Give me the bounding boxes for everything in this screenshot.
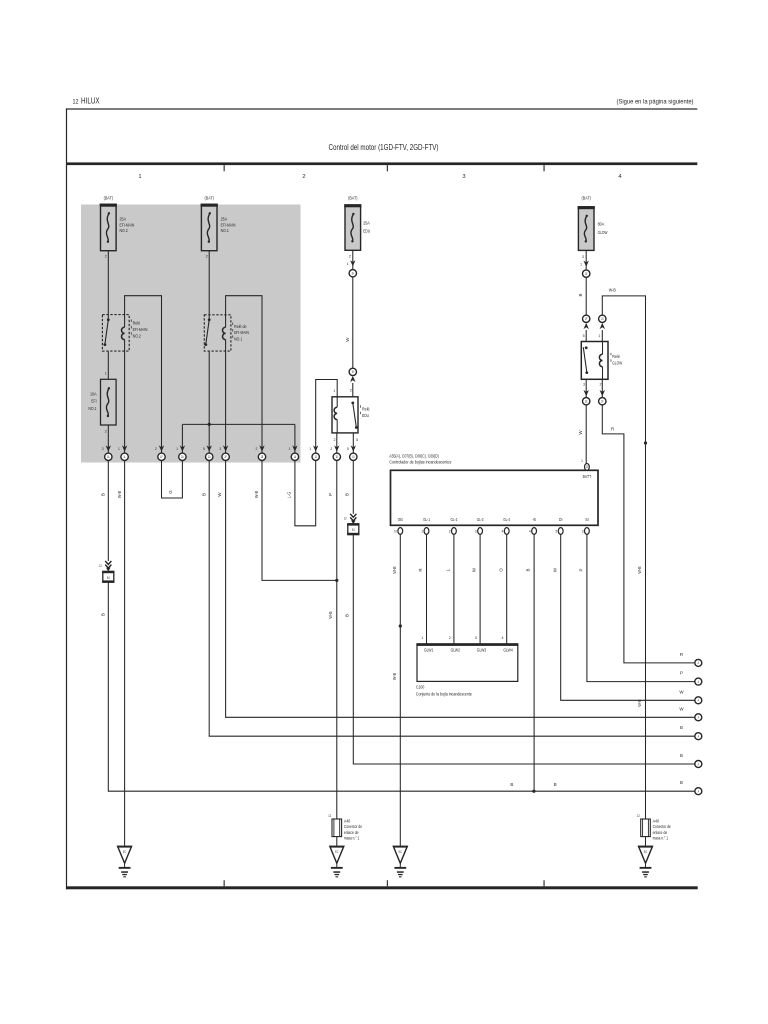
wire label B right edge <box>680 780 683 785</box>
wire label W (BATT) <box>578 430 583 435</box>
value label 10A EFI NO.1 <box>88 391 97 410</box>
junction dot +B joins B bus <box>532 790 535 793</box>
svg-text:(BAT): (BAT) <box>205 195 215 200</box>
svg-text:enlace de: enlace de <box>344 830 359 835</box>
wire A40 right to ground <box>645 837 647 847</box>
svg-text:E4: E4 <box>352 528 355 532</box>
labels GLW1-4 <box>424 648 513 653</box>
svg-text:A40: A40 <box>653 819 660 824</box>
svg-text:B: B <box>345 614 350 617</box>
label relay R4 <box>611 353 623 366</box>
label (BAT) fuse F4 <box>348 195 358 200</box>
svg-text:NO.1: NO.1 <box>88 406 97 411</box>
wire L GL to glow plug 2 <box>446 534 454 644</box>
junction dot on GND wire <box>399 624 402 627</box>
wire label W (col2) <box>217 492 222 497</box>
svg-text:10: 10 <box>394 530 397 534</box>
pin GL-2 of A55 <box>449 517 458 534</box>
pin BATT of A55 <box>581 459 591 479</box>
arrow into connector 2A <box>176 445 185 451</box>
wire B fuse GLOW down <box>585 277 587 315</box>
svg-text:A55(A), C07(B), C08(C), C09(D): A55(A), C07(B), C08(C), C09(D) <box>389 454 439 459</box>
pin 2 of fuse F3 <box>105 430 107 434</box>
wire W-B branch to right <box>602 296 645 819</box>
svg-text:Control del motor (1GD-FTV, 2G: Control del motor (1GD-FTV, 2GD-FTV) <box>329 142 439 152</box>
svg-text:GL-4: GL-4 <box>503 517 510 522</box>
svg-text:80A: 80A <box>598 222 605 227</box>
svg-text:W-B: W-B <box>637 566 642 573</box>
svg-text:4: 4 <box>502 530 504 534</box>
wire fuse F4 to connector <box>347 250 356 269</box>
wire B bottom run to right edge <box>534 790 695 792</box>
connector at right edge W4 <box>695 714 702 721</box>
junction dot column2 bus <box>208 423 211 426</box>
svg-text:2: 2 <box>330 447 332 451</box>
wire bus right drop <box>294 424 296 453</box>
junction dot W-B merge <box>335 579 338 582</box>
wire W GL to glow plug 3 <box>472 534 480 644</box>
svg-text:Conector de: Conector de <box>653 824 672 829</box>
svg-text:A40: A40 <box>344 819 351 824</box>
value label 80A GLOW <box>598 222 608 235</box>
wire label W-B GND lower <box>392 673 397 680</box>
label C100 <box>416 685 472 697</box>
svg-text:3: 3 <box>475 530 477 534</box>
svg-text:(BAT): (BAT) <box>348 195 358 200</box>
section tick top 2|3 <box>387 165 388 171</box>
relay block panel (gray) <box>81 205 301 463</box>
svg-text:2A: 2A <box>107 455 110 459</box>
svg-text:12: 12 <box>73 98 79 105</box>
svg-text:R: R <box>680 652 683 657</box>
connector at right edge B5 <box>695 733 702 740</box>
label A40 left <box>344 819 363 841</box>
relay R3 EDU (solid box) <box>332 397 358 433</box>
wire relay R3 coil loop <box>316 380 338 454</box>
svg-text:GLOW: GLOW <box>598 230 608 235</box>
svg-text:O: O <box>498 568 503 572</box>
wire relay R4 pin3 down <box>584 379 589 397</box>
svg-text:1D: 1D <box>586 465 589 469</box>
label (BAT) fuse F2 <box>205 195 215 200</box>
wire A40 left to ground <box>336 837 338 847</box>
arrow into connector 3E <box>347 445 356 451</box>
svg-text:GLW2: GLW2 <box>451 648 461 653</box>
frame bottom thick rule <box>66 886 698 889</box>
svg-text:HILUX: HILUX <box>81 96 100 105</box>
pin 3 of relay R4 <box>583 383 585 387</box>
connector node 4B <box>583 315 590 322</box>
wire P from SI pin <box>587 534 695 681</box>
connector node 4C <box>599 315 606 322</box>
arrow into connector 3C <box>309 445 318 451</box>
pin GND of A55 <box>394 517 403 534</box>
wire label W right edge 3 <box>679 689 684 694</box>
pin 2 of fuse F1 <box>105 255 107 259</box>
ECU A55 box <box>391 470 599 525</box>
label A40 right <box>653 819 672 841</box>
wire W from DI pin <box>561 534 695 700</box>
svg-text:10A: 10A <box>90 391 97 396</box>
label relay R3 <box>360 405 370 418</box>
svg-text:GND: GND <box>398 517 403 522</box>
connector node 2E <box>291 453 298 460</box>
svg-text:1: 1 <box>105 372 107 376</box>
svg-text:1H: 1H <box>352 272 355 276</box>
frame left border <box>66 108 67 889</box>
svg-text:NO.1: NO.1 <box>234 337 243 342</box>
wire label W (DI) <box>552 567 557 572</box>
section tick top 3|4 <box>544 165 545 171</box>
svg-text:Relé: Relé <box>612 354 620 359</box>
svg-text:W-B: W-B <box>254 491 259 498</box>
svg-text:3: 3 <box>462 174 465 180</box>
connector node 2D <box>258 453 265 460</box>
pin SI of A55 <box>582 517 590 534</box>
section tick bottom 3|4 <box>544 880 545 886</box>
wire label P right edge 2 <box>680 671 683 676</box>
fuse F2 25A EFI-MAIN NO.1 <box>201 204 218 251</box>
wire label B (EDU lower) <box>345 614 350 617</box>
svg-text:W-B: W-B <box>392 673 397 680</box>
svg-text:25A: 25A <box>221 217 228 222</box>
inline connector on wire B <box>99 561 114 583</box>
wire label L-G <box>286 492 291 498</box>
svg-text:W-B: W-B <box>637 699 642 706</box>
label relay R1 <box>131 320 148 339</box>
wire label W right edge 4 <box>679 706 684 711</box>
page header text 12 HILUX <box>73 96 101 105</box>
pin GL-1 of A55 <box>421 517 430 534</box>
svg-text:B: B <box>554 782 557 787</box>
wire bus center drop <box>208 424 210 453</box>
svg-text:B: B <box>526 568 531 571</box>
ground G3 <box>393 846 408 878</box>
svg-text:2: 2 <box>449 530 451 534</box>
arrow into connector 2B <box>203 445 212 451</box>
svg-text:SI: SI <box>585 517 588 522</box>
pin 1 of fuse F3 <box>105 372 107 376</box>
svg-text:(BAT): (BAT) <box>582 196 592 201</box>
wire label P (SI) <box>579 568 584 571</box>
wire label W-B (GLOW top) <box>609 288 616 293</box>
inline connector on EDU B wire <box>344 514 360 536</box>
svg-text:Relé: Relé <box>362 407 370 412</box>
wire P from connector 3D <box>336 461 338 581</box>
svg-text:R: R <box>611 426 614 431</box>
svg-text:25A: 25A <box>363 220 370 225</box>
svg-text:B: B <box>101 493 106 496</box>
wire label B (EDU sw) <box>345 493 350 496</box>
connector at right edge B6 <box>695 761 702 768</box>
svg-text:B: B <box>680 780 683 785</box>
svg-text:Relé: Relé <box>133 321 141 326</box>
svg-text:(Sigue en la página siguiente): (Sigue en la página siguiente) <box>617 99 694 106</box>
svg-text:12: 12 <box>344 517 347 521</box>
connector node 4A <box>583 270 590 277</box>
svg-text:1: 1 <box>333 389 335 393</box>
wire fuse F1 to relay R1 <box>107 251 109 320</box>
wire W relay R4 to BATT <box>585 405 587 464</box>
svg-text:(BAT): (BAT) <box>104 195 114 200</box>
svg-text:DI: DI <box>559 517 562 522</box>
svg-text:masa n.° 1: masa n.° 1 <box>344 835 360 840</box>
column number 3 <box>462 174 465 180</box>
wire label B lower <box>101 613 106 616</box>
svg-text:5: 5 <box>556 530 558 534</box>
connector at right edge P2 <box>695 678 702 685</box>
svg-text:1: 1 <box>598 334 600 338</box>
wire label B (GLOW) <box>578 293 583 296</box>
svg-text:EDU: EDU <box>363 229 370 234</box>
svg-text:1: 1 <box>347 262 349 266</box>
svg-text:P: P <box>680 671 683 676</box>
svg-text:2A: 2A <box>181 455 184 459</box>
wire O GL to glow plug 4 <box>498 534 506 644</box>
svg-text:2: 2 <box>349 255 351 259</box>
arrow into connector 2D <box>256 445 265 451</box>
arrow up into connector 4B <box>584 323 589 342</box>
arrow into connector 2C <box>219 445 228 451</box>
wire fuse F3 to connector row <box>107 425 109 453</box>
svg-text:W-B: W-B <box>609 288 616 293</box>
svg-text:4: 4 <box>502 636 504 640</box>
wire B EDU to right edge <box>353 534 694 764</box>
pin 1 of relay R3 <box>333 389 335 393</box>
pin 2 of fuse F5 <box>582 255 584 259</box>
svg-text:E4: E4 <box>107 576 110 580</box>
relay R1 EFI-MAIN NO.2 (dashed) <box>102 315 129 352</box>
wire R relay R4 to right edge <box>602 405 694 663</box>
arrow into connector 1A <box>102 445 111 451</box>
connector node 3D <box>333 453 340 460</box>
wire label B bottom right <box>554 782 557 787</box>
svg-text:Conector de: Conector de <box>344 824 363 829</box>
svg-text:1: 1 <box>138 174 141 180</box>
svg-text:NO.1: NO.1 <box>221 228 230 233</box>
svg-text:EC: EC <box>399 850 403 854</box>
svg-text:12: 12 <box>99 564 102 568</box>
svg-text:NO.2: NO.2 <box>133 334 142 339</box>
wire W-B from connector 1B to ground <box>124 461 126 847</box>
relay R4 GLOW (solid box) <box>581 342 608 380</box>
svg-text:B: B <box>680 725 683 730</box>
svg-text:W-B: W-B <box>392 566 397 573</box>
wire label B (+B) <box>526 568 531 571</box>
wire junction bus horizontal <box>182 423 295 425</box>
arrow into connector 1B <box>118 445 127 451</box>
svg-text:2: 2 <box>105 430 107 434</box>
connector node 1B <box>121 453 128 460</box>
svg-text:2: 2 <box>350 388 352 392</box>
wire relay R4 pin2 down <box>600 379 605 397</box>
svg-text:2: 2 <box>334 438 336 442</box>
svg-text:+B: +B <box>532 517 535 522</box>
svg-text:2: 2 <box>206 255 208 259</box>
wire B from connector 2B <box>209 461 694 737</box>
wire L-G jumper 2E to 3C <box>295 461 316 526</box>
pin 5 of relay R4 <box>583 334 585 338</box>
ECU A55 glow plug controller heading <box>389 454 452 465</box>
svg-text:GLW1: GLW1 <box>424 648 434 653</box>
ground G2 <box>330 846 345 878</box>
svg-text:1G: 1G <box>601 317 604 321</box>
svg-text:2A: 2A <box>208 455 211 459</box>
connector node 3E <box>350 453 357 460</box>
value label 25A EFI-MAIN NO.2 <box>120 217 135 233</box>
wire R GL to glow plug 1 <box>418 534 426 644</box>
wire B from connector 3E <box>352 461 354 514</box>
connector node 1A <box>105 453 112 460</box>
title Control del motor (1GD-FTV, 2GD-FTV) <box>329 142 439 152</box>
wire label W-B (col2) <box>254 491 259 498</box>
svg-text:NO.2: NO.2 <box>120 228 129 233</box>
svg-text:GLW3: GLW3 <box>477 648 487 653</box>
svg-text:Relé de: Relé de <box>234 324 247 329</box>
svg-text:5: 5 <box>356 438 358 442</box>
wire label W (EDU) <box>345 337 350 342</box>
svg-text:3: 3 <box>219 447 221 451</box>
wire B from connector 1A <box>107 461 109 562</box>
connector node 4E <box>599 398 606 405</box>
svg-text:W-B: W-B <box>117 491 122 498</box>
svg-text:1F: 1F <box>585 317 588 321</box>
frame top rule <box>66 108 697 109</box>
wire label W-B <box>117 491 122 498</box>
arrow into connector 1C <box>155 445 164 451</box>
svg-text:Controlador de bujías incandes: Controlador de bujías incandescentes <box>389 460 452 465</box>
wire relay R1 coil loop <box>125 296 162 453</box>
wire label B right edge 6 <box>680 753 683 758</box>
glow plug assembly C100 box <box>416 643 518 681</box>
svg-text:2: 2 <box>449 636 451 640</box>
wire bus left drop <box>181 424 183 453</box>
connector at right edge B7 <box>695 788 702 795</box>
svg-text:EC: EC <box>335 850 339 854</box>
connector node 2C <box>222 453 229 460</box>
pin 2 of fuse F4 <box>349 255 351 259</box>
pin +B of A55 <box>529 517 537 534</box>
ground link connector A40 right <box>637 814 650 836</box>
svg-text:1F: 1F <box>601 400 604 404</box>
ground G4 <box>638 846 653 878</box>
svg-text:1: 1 <box>288 447 290 451</box>
connector node 1C <box>158 453 165 460</box>
svg-text:masa n.° 1: masa n.° 1 <box>653 835 669 840</box>
svg-text:3: 3 <box>475 636 477 640</box>
wire fuse F2 to relay R2 <box>208 251 210 320</box>
svg-text:2: 2 <box>105 255 107 259</box>
value label 25A EDU <box>363 220 370 233</box>
pin GL-4 of A55 <box>502 517 511 534</box>
wire relay R3 pin2 down <box>336 433 338 453</box>
label relay R2 <box>232 323 249 342</box>
svg-text:1H: 1H <box>352 370 355 374</box>
svg-text:EFI-MAIN: EFI-MAIN <box>234 330 249 335</box>
relay R2 EFI-MAIN NO.1 (dashed) <box>204 315 231 351</box>
svg-text:1: 1 <box>176 447 178 451</box>
svg-text:2: 2 <box>582 255 584 259</box>
svg-text:enlace de: enlace de <box>653 830 668 835</box>
arrow into connector 3D <box>330 445 339 451</box>
svg-text:12: 12 <box>328 814 331 818</box>
wire relay R3 pin5 down <box>352 433 354 453</box>
svg-text:EDU: EDU <box>362 413 369 418</box>
svg-text:GL-2: GL-2 <box>451 517 458 522</box>
svg-text:3: 3 <box>102 447 104 451</box>
pin 2 of relay R3 bottom <box>334 438 336 442</box>
wire relay R2 coil to connector <box>225 340 227 454</box>
svg-text:GLW4: GLW4 <box>503 648 513 653</box>
coil of relay R1 <box>122 327 125 339</box>
wire relay R1 coil to connector <box>124 340 126 454</box>
wire W from connector 2C <box>226 461 695 718</box>
pin GL-3 of A55 <box>475 517 484 534</box>
pin DI of A55 <box>556 517 564 534</box>
wire label B <box>101 493 106 496</box>
connector node 2A <box>179 453 186 460</box>
svg-text:1: 1 <box>581 459 583 463</box>
svg-text:1F: 1F <box>224 455 227 459</box>
svg-text:B: B <box>101 613 106 616</box>
connector node 2B <box>206 453 213 460</box>
arrow up into connector 3B <box>350 376 355 397</box>
coil of relay R4 <box>599 342 602 380</box>
svg-text:B: B <box>578 293 583 296</box>
connector node 3C <box>312 453 319 460</box>
fuse F4 25A EDU <box>344 204 361 250</box>
svg-text:R: R <box>418 568 423 571</box>
wire label R right edge 1 <box>680 652 683 657</box>
svg-text:C100: C100 <box>416 685 425 690</box>
svg-text:1: 1 <box>309 447 311 451</box>
svg-text:B: B <box>510 782 513 787</box>
svg-text:1A: 1A <box>294 455 297 459</box>
svg-text:1: 1 <box>421 636 423 640</box>
pin 2 of relay R3 <box>350 388 352 392</box>
svg-text:GL-3: GL-3 <box>477 517 484 522</box>
wire label W-B (glow mid) <box>637 566 642 573</box>
svg-text:B: B <box>345 493 350 496</box>
coil of relay R3 <box>334 397 337 433</box>
svg-text:Conjunto de la bujía incandesc: Conjunto de la bujía incandescente <box>416 691 472 696</box>
svg-text:B: B <box>680 753 683 758</box>
svg-text:3: 3 <box>583 383 585 387</box>
section tick bottom 1|2 <box>224 880 225 886</box>
svg-text:L-G: L-G <box>286 492 291 498</box>
label (BAT) fuse F5 <box>582 196 592 201</box>
svg-text:2: 2 <box>600 383 602 387</box>
arrow up into connector 4C <box>600 323 605 342</box>
svg-text:EC: EC <box>644 850 648 854</box>
wire relay R2 coil loop <box>226 296 262 453</box>
junction dot on W-B glow wire <box>644 441 647 444</box>
svg-text:W-B: W-B <box>328 611 333 618</box>
arrow into connector 2E <box>288 445 297 451</box>
svg-text:1: 1 <box>580 262 582 266</box>
svg-text:1E: 1E <box>585 400 588 404</box>
svg-text:5: 5 <box>347 447 349 451</box>
svg-text:25A: 25A <box>120 217 127 222</box>
wire B from +B pin <box>533 534 535 791</box>
svg-text:3: 3 <box>582 530 584 534</box>
svg-text:2: 2 <box>256 447 258 451</box>
svg-text:EFI: EFI <box>91 399 96 404</box>
pin 1 of relay R4 <box>598 334 600 338</box>
svg-text:1F: 1F <box>160 455 163 459</box>
wire label B (col2) <box>201 493 206 496</box>
ground G1 <box>117 846 132 878</box>
